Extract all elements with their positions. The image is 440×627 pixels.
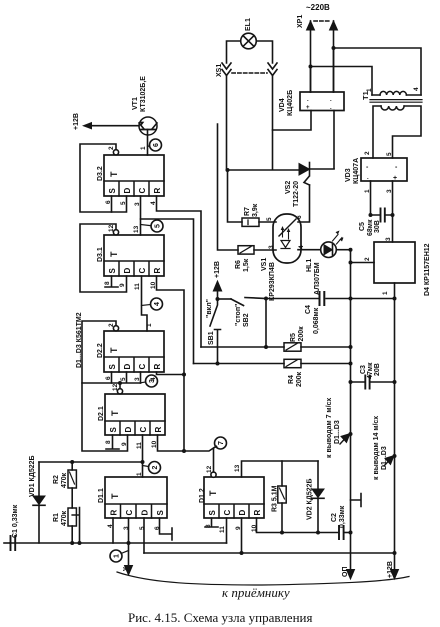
capacitor C1 plates xyxy=(11,536,16,550)
svg-text:0,068мк: 0,068мк xyxy=(313,307,320,334)
wire: OP rail (common) vertical xyxy=(350,250,352,569)
wire: +12V rail vertical xyxy=(394,299,396,570)
svg-text:VS1: VS1 xyxy=(261,258,268,271)
wire: VS1 pin6 up to VS2 gate xyxy=(298,185,310,222)
svg-text:D: D xyxy=(123,268,132,274)
svg-text:EL1: EL1 xyxy=(245,18,252,31)
wire: VT1 collector down the left side to R6 row xyxy=(218,124,239,250)
switch SB2 lever xyxy=(231,299,244,306)
svg-text:Т122-20: Т122-20 xyxy=(293,181,300,207)
svg-text:D: D xyxy=(124,427,133,433)
svg-text:R: R xyxy=(153,364,162,370)
svg-text:S: S xyxy=(208,510,217,516)
svg-text:20В: 20В xyxy=(374,363,381,376)
wire: VD4 dc left lead to EL1/XS1 node and down to VS2 anode row xyxy=(273,111,312,170)
node junction at 79.5,543 xyxy=(78,541,82,545)
svg-text:ХР1: ХР1 xyxy=(297,15,304,28)
wire: D3.2 C pin3 down to D3.1 pin13 xyxy=(140,196,142,235)
wire: D1.1 D pin5 down to +12V row xyxy=(143,518,145,553)
svg-text:2: 2 xyxy=(108,323,115,327)
svg-text:5: 5 xyxy=(120,377,127,381)
node junction at 241.5,553 xyxy=(240,551,244,555)
svg-text:8: 8 xyxy=(104,281,111,285)
wire: EL1 left lead down to XS1 xyxy=(227,41,241,63)
svg-text:"стоп": "стоп" xyxy=(235,304,242,326)
svg-text:R: R xyxy=(110,510,119,516)
diode bridge VD4 box xyxy=(300,92,344,111)
svg-text:0,33мк: 0,33мк xyxy=(339,505,346,528)
node junction at 142.5,462 xyxy=(141,460,145,464)
node 2 circle xyxy=(149,462,161,474)
svg-text:S: S xyxy=(156,510,165,516)
node 1 circle xyxy=(110,550,122,562)
flip-flop D3.1 box xyxy=(104,235,164,276)
svg-text:1,5к: 1,5к xyxy=(243,258,250,272)
svg-text:R4: R4 xyxy=(288,375,295,384)
wire: tap to reset bus B xyxy=(141,219,194,364)
svg-text:S: S xyxy=(108,268,117,274)
svg-text:КР293КП4В: КР293КП4В xyxy=(269,262,276,301)
D3.1 inversion bubble pin12 xyxy=(113,230,118,235)
svg-text:D1.2: D1.2 xyxy=(199,488,206,503)
node junction at 266,298.5 xyxy=(264,297,268,301)
svg-text:+: + xyxy=(306,105,310,111)
svg-text:R2: R2 xyxy=(53,475,60,484)
wire: VT1 emitter to +12V arrow left xyxy=(86,125,139,127)
wire: D1.2 C pin11 down to input rail xyxy=(226,518,228,543)
wire: timing rail y=462 from VD1 to node 2 xyxy=(39,461,143,463)
thyristor VS2 xyxy=(299,164,310,176)
svg-text:S: S xyxy=(109,427,118,433)
svg-text:Т: Т xyxy=(109,347,119,353)
wire: D2.1 D loop from node row down xyxy=(82,383,128,451)
flip-flop D1.1 box xyxy=(105,477,167,518)
node junction at 333.5,48 xyxy=(332,46,336,50)
svg-text:68мк: 68мк xyxy=(367,219,374,236)
svg-text:+12В: +12В xyxy=(387,561,394,578)
thyristor VS2 gate xyxy=(304,177,310,186)
svg-text:С1 0,33мк: С1 0,33мк xyxy=(12,504,19,538)
wire: R2 leads xyxy=(71,462,73,508)
svg-text:200к: 200к xyxy=(296,371,303,387)
svg-text:3: 3 xyxy=(385,237,392,241)
wire: SB2 node down to R5 row xyxy=(265,299,267,348)
wire: D4 pin1 down to +12V node xyxy=(394,283,396,299)
switch SB1 fixed contact xyxy=(215,330,221,364)
svg-text:4: 4 xyxy=(107,524,114,528)
brace: to receiver xyxy=(117,572,409,585)
wire: VD3 pin3 down to D4 pin3 xyxy=(392,181,394,242)
svg-text:8: 8 xyxy=(205,524,212,528)
svg-text:D2.2: D2.2 xyxy=(97,343,104,358)
node 5 circle xyxy=(151,220,163,232)
annotation arrow: to pins 14 of D1..D3 xyxy=(384,460,390,467)
svg-text:1: 1 xyxy=(140,146,147,150)
svg-text:VT1: VT1 xyxy=(132,97,139,110)
capacitor C3 row xyxy=(351,381,395,383)
svg-text:2: 2 xyxy=(108,146,115,150)
svg-text:S: S xyxy=(108,188,117,194)
svg-text:C: C xyxy=(138,268,147,274)
wire: left node down to R7 row xyxy=(228,170,243,222)
svg-text:C: C xyxy=(138,364,147,370)
connector XS1 dashed link xyxy=(232,72,267,74)
svg-text:30В: 30В xyxy=(374,220,381,233)
capacitor C5 row xyxy=(371,214,393,216)
svg-text:.: . xyxy=(307,97,309,103)
svg-text:D: D xyxy=(123,364,132,370)
svg-text:9: 9 xyxy=(119,283,126,287)
input arrow down (to receiver) xyxy=(128,543,130,566)
svg-text:D: D xyxy=(123,188,132,194)
svg-text:470к: 470к xyxy=(61,472,68,488)
svg-text:3: 3 xyxy=(386,189,393,193)
svg-text:2: 2 xyxy=(364,151,371,155)
node junction at 72.2,462 xyxy=(70,460,74,464)
connector XP1 dashed link xyxy=(314,20,330,22)
svg-text:-: - xyxy=(395,164,398,171)
wire: D3.1 R pin10 to reset bus C xyxy=(157,276,185,451)
wire: T1 secondary right lead to VD3 pin5 xyxy=(393,106,422,158)
svg-text:D1...D3 К561ТМ2: D1...D3 К561ТМ2 xyxy=(76,312,83,368)
svg-text:1: 1 xyxy=(136,472,143,476)
wire: SB2 fixed contact to C4 node xyxy=(245,298,266,299)
flip-flop D2.2 box xyxy=(104,331,164,372)
svg-text:6: 6 xyxy=(105,376,112,380)
wire: HL1 cathode to OP rail top xyxy=(336,249,350,251)
lamp EL1 xyxy=(241,33,257,49)
capacitor C5 plates xyxy=(381,209,385,222)
wire: VD2 leads xyxy=(317,461,319,533)
svg-text:4: 4 xyxy=(298,245,305,249)
node junction at 318,532.5 xyxy=(316,531,320,535)
svg-text:3,9к: 3,9к xyxy=(252,203,259,217)
wire: input rail y=543 xyxy=(10,542,227,544)
svg-text:C: C xyxy=(139,427,148,433)
svg-text:D: D xyxy=(141,510,150,516)
wire: R6 to VS1 pin3 xyxy=(254,249,276,251)
svg-text:-: - xyxy=(366,164,369,171)
svg-text:АЛ307БМ: АЛ307БМ xyxy=(314,262,321,295)
wire: R5 row xyxy=(201,346,351,348)
svg-text:C: C xyxy=(125,510,134,516)
connector XS1 right chevrons xyxy=(268,63,277,76)
node 3 circle xyxy=(146,375,158,387)
wire: D1.2 Q pin13 to R3/VD2 top row xyxy=(242,461,319,477)
svg-text:R: R xyxy=(153,268,162,274)
wire: D1.1 C pin3 down to input rail xyxy=(128,518,130,543)
svg-text:12: 12 xyxy=(112,383,119,391)
wire: C2 to OP rail xyxy=(345,532,351,534)
svg-text:8: 8 xyxy=(105,440,112,444)
wire: D1.1 S pin6 stub with bar xyxy=(160,518,173,540)
svg-text:R6: R6 xyxy=(235,260,242,269)
wire: D2.1 C pin11 down to D1.1 pin1 (node 2) xyxy=(142,435,144,477)
node junction at 282,532.5 xyxy=(280,531,284,535)
svg-text:10: 10 xyxy=(151,440,158,448)
wire: D1.2 S pin8 stub with bar xyxy=(205,518,218,527)
wire: R1/R2 tap hook to reset xyxy=(72,508,79,544)
svg-text:4: 4 xyxy=(413,87,420,91)
wire: XS1 right continues down to VD4 dc node xyxy=(272,76,274,130)
svg-text:С3: С3 xyxy=(360,365,367,374)
svg-text:R: R xyxy=(253,510,262,516)
capacitor C3 plates xyxy=(365,376,369,389)
wire: VS1 pin4 to HL1 xyxy=(298,249,321,251)
D2.2 inversion bubble pin2 xyxy=(113,326,118,331)
svg-text:13: 13 xyxy=(234,464,241,472)
node 6 circle xyxy=(150,139,162,151)
node junction at 266,347 xyxy=(264,345,268,349)
node junction at 310.5,66.5 xyxy=(309,65,313,69)
wire: R7 to VS1 pin5 xyxy=(259,221,276,223)
svg-text:D: D xyxy=(238,510,247,516)
wire: VD1 leads xyxy=(38,462,40,543)
svg-text:C: C xyxy=(223,510,232,516)
D3.2 inversion bubble pin2 xyxy=(113,150,118,155)
svg-text:VD3: VD3 xyxy=(345,168,352,182)
wire: D3.2 R pin4 to bus A xyxy=(157,196,202,347)
svg-text:1: 1 xyxy=(146,323,153,327)
wire: +12V row to D pins (y=553) xyxy=(144,552,395,554)
svg-text:9: 9 xyxy=(121,442,128,446)
wire: D4 pin2 to OP rail xyxy=(351,262,375,264)
+12V feed arrow above SB1 xyxy=(217,291,219,299)
wire: D2.2 S stub xyxy=(111,372,113,383)
svg-text:R: R xyxy=(154,427,163,433)
svg-text:9: 9 xyxy=(235,526,242,530)
transistor VT1 xyxy=(139,117,157,135)
svg-text:3: 3 xyxy=(134,202,141,206)
node junction C5 left xyxy=(369,213,373,217)
svg-text:R5: R5 xyxy=(290,333,297,342)
D1.2 inversion bubble pin12 xyxy=(211,472,216,477)
wire: VD4 ac lead left (up) xyxy=(310,67,312,93)
svg-text:1: 1 xyxy=(382,291,389,295)
wire: D2.1 R pin10 to bus C row xyxy=(158,435,217,477)
resistor R7 xyxy=(242,218,259,226)
svg-text:+12В: +12В xyxy=(73,113,80,130)
diode VD2 xyxy=(312,489,324,498)
svg-text:1: 1 xyxy=(114,554,121,558)
svg-text:D1.1: D1.1 xyxy=(98,488,105,503)
wire: VD3 pin1 down to C5 row xyxy=(370,181,372,215)
resistor R4 xyxy=(284,359,301,367)
svg-text:3: 3 xyxy=(268,245,275,249)
wire: D3.1 S pin8 stub xyxy=(105,276,118,287)
svg-text:КТ3102Б,Е: КТ3102Б,Е xyxy=(140,76,147,112)
svg-text:13: 13 xyxy=(133,225,140,233)
OP rail arrow down xyxy=(347,570,355,580)
svg-text:5: 5 xyxy=(139,526,146,530)
ground-bar stub on OP rail xyxy=(351,494,362,507)
resistor R3 xyxy=(278,486,286,503)
node junction at 72.2,543 xyxy=(70,541,74,545)
flip-flop D1.2 box xyxy=(204,477,264,518)
svg-text:11: 11 xyxy=(134,283,141,290)
svg-text:XS1: XS1 xyxy=(216,64,223,77)
wire: D3.2 S stub xyxy=(111,196,113,212)
diode VD1 xyxy=(33,496,45,505)
capacitor C4 row xyxy=(266,298,395,300)
svg-text:D1...D3: D1...D3 xyxy=(381,446,388,470)
svg-text:Т: Т xyxy=(109,251,119,257)
wire: D3.1 C pin11 down to D2.2 pin1 xyxy=(142,276,148,331)
svg-text:6: 6 xyxy=(105,200,112,204)
resistor R1 xyxy=(68,508,76,526)
capacitor C4 plates xyxy=(320,292,325,305)
diode bridge VD3 box xyxy=(361,158,407,181)
node 4 circle xyxy=(151,298,163,310)
wire: node to T1 primary pin4 xyxy=(334,48,422,95)
svg-text:HL1: HL1 xyxy=(306,259,313,272)
wire: D1.2 R pin10 to R3/VD2 bottom row xyxy=(257,518,338,533)
svg-text:VD4: VD4 xyxy=(279,98,286,112)
flip-flop D3.2 box xyxy=(104,155,164,196)
resistor R5 xyxy=(284,343,301,351)
wire: R4 row xyxy=(194,363,351,365)
flip-flop D2.1 box xyxy=(105,394,165,435)
svg-text:ОП: ОП xyxy=(342,567,349,577)
svg-text:R: R xyxy=(153,188,162,194)
svg-text:VD2 КД522Б: VD2 КД522Б xyxy=(307,478,314,520)
svg-text:КЦ407А: КЦ407А xyxy=(353,158,360,184)
svg-text:4: 4 xyxy=(150,201,157,205)
svg-text:R7: R7 xyxy=(244,207,251,216)
node junction at 217.5,363.5 xyxy=(216,362,220,366)
svg-text:С4: С4 xyxy=(305,305,312,314)
svg-text:.: . xyxy=(330,97,332,103)
svg-text:D3.2: D3.2 xyxy=(97,166,104,181)
svg-text:D1...D3: D1...D3 xyxy=(334,420,341,444)
resistor R2 xyxy=(68,470,76,488)
wire: node to T1 primary pin1 xyxy=(311,67,373,96)
wire: XP1 right arrow / mains neutral down to VD4 xyxy=(333,21,335,92)
svg-text:12: 12 xyxy=(206,465,213,473)
wire: VS2 anode row xyxy=(228,169,300,171)
svg-text:VS2: VS2 xyxy=(285,181,292,194)
svg-text:12: 12 xyxy=(108,224,115,232)
svg-text:11: 11 xyxy=(219,526,226,533)
wire: D1.1 R pin4 down to input rail xyxy=(112,518,114,543)
svg-text:3: 3 xyxy=(149,379,156,383)
wire: D2.2 C pin3 stub xyxy=(140,372,142,383)
svg-text:10: 10 xyxy=(251,524,258,532)
svg-text:у: у xyxy=(122,567,129,571)
svg-text:S: S xyxy=(108,364,117,370)
svg-text:2: 2 xyxy=(364,257,371,261)
svg-text:3: 3 xyxy=(123,526,130,530)
optocoupler VS1 internals: led and arrows xyxy=(281,241,290,249)
svg-text:200к: 200к xyxy=(298,326,305,342)
svg-text:6: 6 xyxy=(153,143,160,147)
svg-text:2: 2 xyxy=(152,465,159,469)
svg-text:С5: С5 xyxy=(359,222,366,231)
svg-text:к приёмнику: к приёмнику xyxy=(222,585,290,600)
svg-text:1: 1 xyxy=(364,189,371,193)
svg-text:Т: Т xyxy=(110,493,120,499)
wire: D3.1 feedback loop pin12 to D xyxy=(80,224,127,292)
svg-text:к выводам 14 м/сх: к выводам 14 м/сх xyxy=(373,416,380,480)
node junction at 227.5,170 xyxy=(226,168,230,172)
svg-text:D4 КР1157ЕН12: D4 КР1157ЕН12 xyxy=(424,243,431,296)
wire: D2.1 S pin8 stub xyxy=(106,435,119,449)
svg-text:Рис. 4.15. Схема узла управлен: Рис. 4.15. Схема узла управления xyxy=(128,610,312,625)
node 7 circle xyxy=(215,437,227,449)
D2.1 inversion bubble pin12 xyxy=(117,389,122,394)
svg-text:6: 6 xyxy=(154,526,161,530)
svg-text:6: 6 xyxy=(296,215,303,219)
svg-text:C: C xyxy=(138,188,147,194)
svg-text:470к: 470к xyxy=(61,510,68,526)
svg-text:D3.1: D3.1 xyxy=(97,247,104,262)
wire: D2.2 feedback loop xyxy=(82,321,141,383)
wire: VS2 cathode to VD4 xyxy=(310,168,335,170)
svg-text:5: 5 xyxy=(120,201,127,205)
svg-text:КЦ402Б: КЦ402Б xyxy=(287,90,294,116)
svg-text:1: 1 xyxy=(366,88,373,92)
svg-text:.: . xyxy=(367,175,369,181)
wire: XS1 left continues down to VS2 anode node xyxy=(226,76,228,170)
node junction at 184,451 xyxy=(182,449,186,453)
node junction C5 right xyxy=(391,213,395,217)
svg-text:С2: С2 xyxy=(331,513,338,522)
wire: +12V row to SB2 xyxy=(218,298,232,300)
wire: D2.1 pin12 up to node xyxy=(119,383,121,389)
svg-text:5: 5 xyxy=(386,152,393,156)
wire: VD4 dc right lead down to VS2 cathode xyxy=(333,111,335,169)
wire: VT1 base to D3.2 pin1 xyxy=(147,135,149,155)
wire: D1.2 D pin9 down to +12V row xyxy=(241,518,243,553)
optocoupler VS1 internals: output chord xyxy=(279,219,296,236)
wire: R1 bottom lead xyxy=(71,526,73,543)
resistor R6 xyxy=(238,246,254,254)
capacitor C2 plates xyxy=(339,526,344,539)
wire: R3 leads xyxy=(281,461,283,533)
svg-text:5: 5 xyxy=(155,224,162,228)
svg-text:R3 5,1М: R3 5,1М xyxy=(272,485,279,512)
svg-text:47мк: 47мк xyxy=(367,362,374,379)
node junction at 120,383 xyxy=(118,381,122,385)
node junctions on OP rail xyxy=(349,248,353,252)
svg-text:к выводам 7 м/сх: к выводам 7 м/сх xyxy=(326,398,333,458)
svg-text:3: 3 xyxy=(134,377,141,381)
led HL1 xyxy=(321,242,337,258)
transformer T1 core xyxy=(370,100,422,103)
wire: VD4 ac lead right (up) xyxy=(333,48,335,92)
node junction at 184,374.5 xyxy=(182,373,186,377)
node junction at 217.5,299 xyxy=(216,297,220,301)
svg-text:~220В: ~220В xyxy=(306,3,330,12)
wire: XP1 left arrow / mains phase down to VD4 xyxy=(310,21,312,92)
optocoupler VS1 body xyxy=(273,214,301,263)
svg-text:+: + xyxy=(393,175,397,182)
svg-text:11: 11 xyxy=(136,442,143,449)
led HL1 arrows xyxy=(333,235,343,245)
node junction at 128.5,543 xyxy=(127,541,131,545)
svg-text:4: 4 xyxy=(154,302,161,306)
switch SB1 lever xyxy=(210,299,218,326)
svg-text:7: 7 xyxy=(218,441,225,445)
regulator D4 box xyxy=(374,242,415,283)
transformer T1 secondary winding xyxy=(381,106,404,110)
svg-text:+12В: +12В xyxy=(214,261,221,278)
wire: T1 secondary left lead to VD3 pin2 xyxy=(373,106,381,158)
connector XS1 left chevrons xyxy=(222,63,231,76)
wire: T1 primary leads xyxy=(372,94,421,96)
wire: D2.2 R pin4 to bus C xyxy=(157,372,185,375)
wire: EL1 right lead down to XS1 xyxy=(256,41,272,63)
